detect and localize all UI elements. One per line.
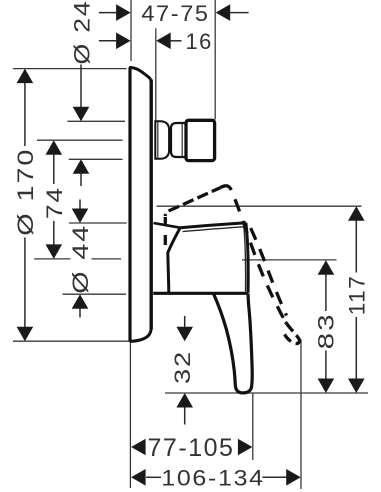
svg-text:16: 16 [185, 29, 212, 54]
svg-text:32: 32 [170, 350, 195, 384]
svg-text:83: 83 [313, 312, 338, 349]
svg-text:Ø 44: Ø 44 [68, 224, 93, 294]
svg-text:47-75: 47-75 [141, 1, 209, 26]
svg-text:Ø 24: Ø 24 [70, 0, 95, 65]
svg-text:117: 117 [344, 275, 369, 316]
svg-text:77-105: 77-105 [148, 435, 235, 462]
svg-text:Ø 170: Ø 170 [13, 148, 38, 236]
svg-text:74: 74 [42, 186, 67, 219]
svg-text:106-134: 106-134 [161, 465, 265, 490]
